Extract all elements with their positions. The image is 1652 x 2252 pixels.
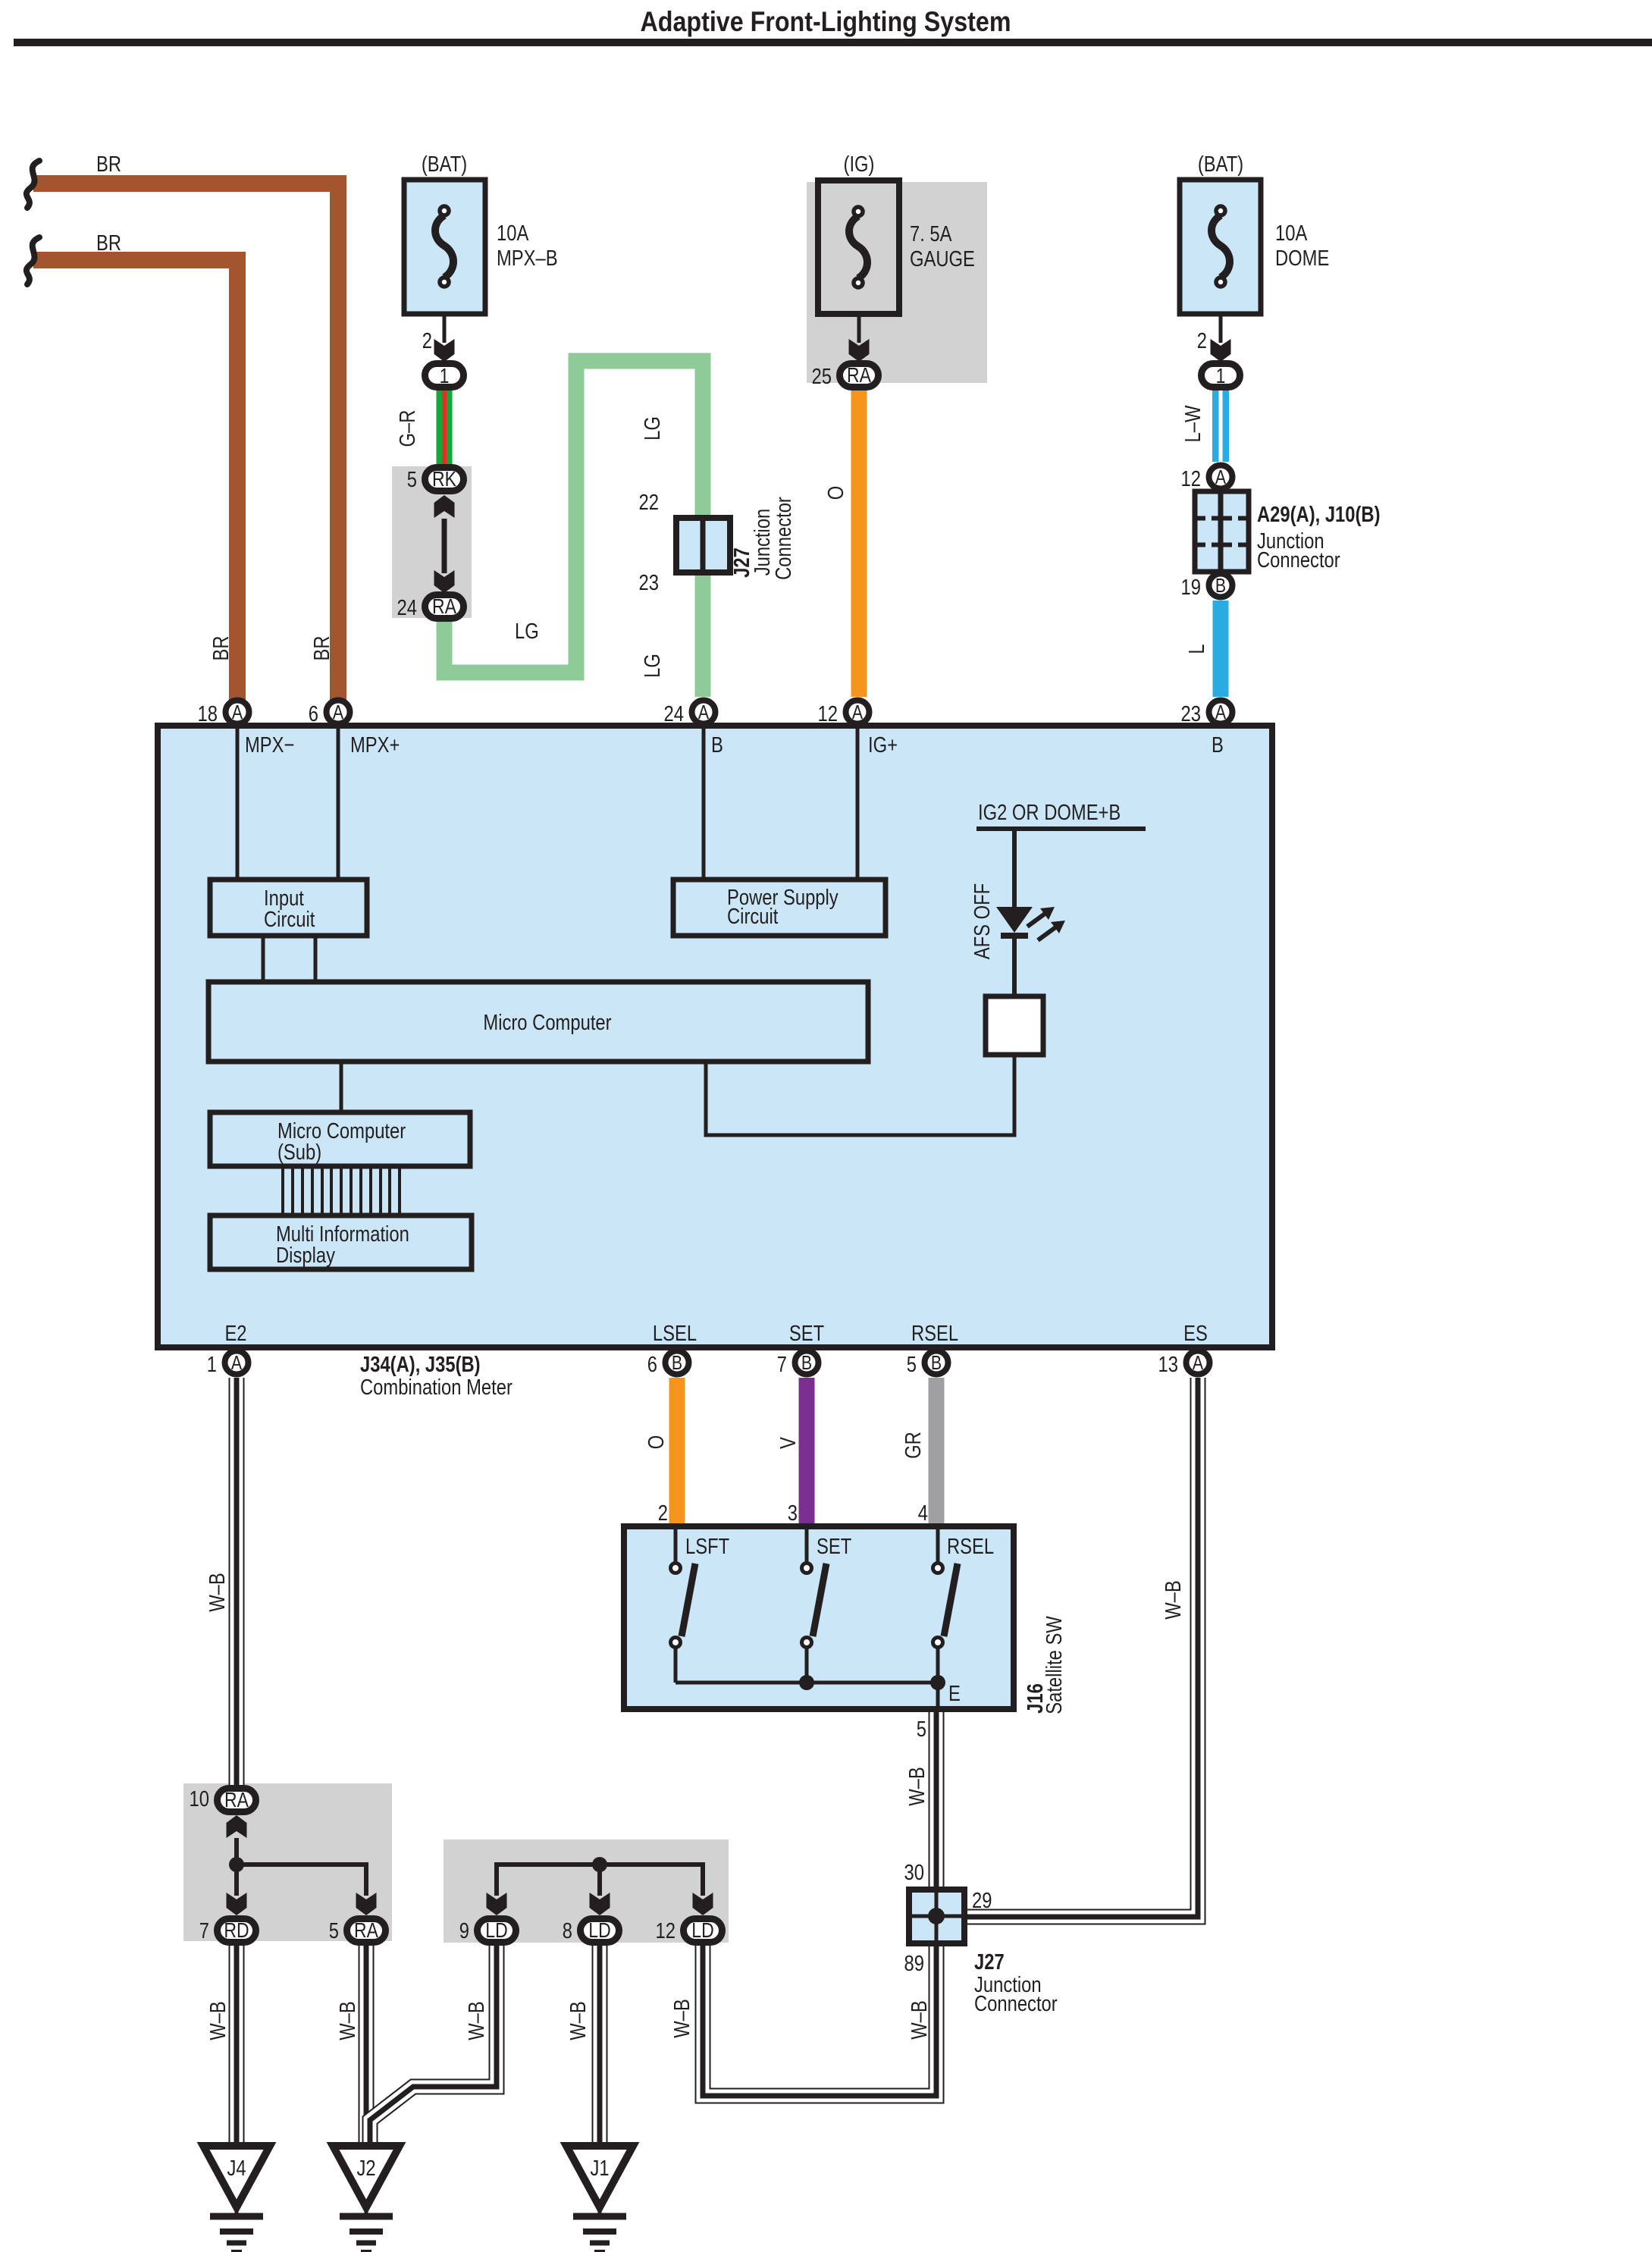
label J34(A), J35(B) Combination Meter [360,1353,513,1400]
svg-text:RSEL: RSEL [947,1535,994,1559]
wire micro computer to AFS indicator driver [706,1055,1014,1135]
wire W-B from 9LD joining ground J2 [370,1941,497,2146]
pin circle 12A [1209,466,1233,489]
svg-text:BR: BR [96,231,121,256]
wire between RK and RA [442,519,447,573]
arrow down into 5RA [356,1893,377,1915]
svg-text:GAUGE: GAUGE [910,247,975,271]
svg-text:W–B: W–B [670,1999,694,2038]
svg-text:5: 5 [407,468,417,492]
connector oval RA [425,594,464,619]
wire from IG2 node to AFS OFF LED [1012,829,1017,907]
svg-text:E2: E2 [224,1322,246,1346]
shading block: 10RA/7RD/5RA connector group [183,1783,392,1941]
meter bottom edge labels [224,1322,1207,1346]
meter top pin 6A [309,701,350,727]
arrow into 25RA [849,339,870,362]
LD distribution bus [497,1865,703,1896]
shading block: RK/RA connector pair [392,466,472,618]
svg-text:SET: SET [789,1322,825,1346]
meter internal wire MPX+ from pin 6 to input circuit [337,727,340,880]
connector oval 7RD [199,1918,256,1943]
svg-text:MPX–B: MPX–B [497,246,558,271]
svg-text:12: 12 [818,702,839,726]
svg-text:RA: RA [354,1918,378,1942]
svg-text:10A: 10A [497,221,529,246]
ground J4 [203,2146,270,2252]
label A29(A), J10(B) Junction Connector [1257,503,1381,572]
svg-text:1: 1 [1216,364,1226,387]
connector oval RA (gauge) [840,363,879,387]
svg-text:BR: BR [96,152,121,177]
svg-text:3: 3 [788,1501,798,1526]
meter top pin 12A [818,701,870,727]
svg-text:24: 24 [397,596,418,620]
connector pill 1 (MPX-B) [425,364,464,388]
svg-text:19: 19 [1181,576,1202,600]
connector oval 5RA [329,1918,386,1943]
svg-text:W–B: W–B [905,1767,929,1806]
wire LED to indicator square [1012,939,1017,996]
wire W-B from satellite switch E to J27 pin 30 [929,1709,945,1890]
wire 10RA to junction dot [234,1838,239,1865]
meter top pin 23A [1181,701,1233,727]
svg-text:23: 23 [639,571,660,595]
switch LSFT [671,1526,696,1683]
svg-text:A29(A), J10(B): A29(A), J10(B) [1257,503,1381,527]
svg-text:SET: SET [817,1535,852,1559]
label Junction Connector rotated [751,497,796,580]
lead from fuse DOME to connector 1 [1219,314,1223,343]
indicator square box [986,996,1043,1055]
svg-text:LG: LG [641,654,665,678]
svg-text:1: 1 [207,1353,217,1377]
wires input circuit to micro computer [263,936,315,982]
LED light arrows [1027,907,1065,940]
svg-text:A: A [232,701,243,723]
arrow down into 8LD [590,1893,610,1915]
wire O from meter LSEL to satellite switch pin 2 [669,1378,685,1526]
svg-text:(BAT): (BAT) [422,152,467,177]
svg-text:B: B [931,1351,942,1374]
meter top pin 24A [664,701,716,727]
svg-text:ES: ES [1183,1322,1208,1346]
svg-text:B: B [1212,733,1224,757]
svg-text:22: 22 [639,491,660,515]
meter bottom pin 13A [1158,1351,1210,1378]
wire W-B from 8LD to ground J1 [592,1941,608,2146]
svg-text:RK: RK [432,467,456,491]
micro computer box [208,982,868,1062]
svg-text:1: 1 [440,364,450,387]
svg-text:BR: BR [209,636,234,661]
meter bottom pin 6B [647,1351,689,1378]
svg-text:Connector: Connector [974,1992,1058,2016]
svg-text:J27: J27 [974,1950,1005,1974]
svg-text:6: 6 [647,1353,657,1377]
meter top edge labels [245,733,1224,757]
svg-text:RA: RA [224,1788,249,1811]
svg-text:(BAT): (BAT) [1198,152,1243,177]
svg-text:B: B [672,1351,682,1374]
svg-text:LSFT: LSFT [685,1535,729,1559]
svg-text:LSEL: LSEL [653,1322,697,1346]
svg-text:IG+: IG+ [868,733,898,757]
arrow down into RA [434,570,455,593]
svg-text:Circuit: Circuit [264,908,315,932]
svg-text:29: 29 [972,1889,992,1913]
wire LG loop from RA to meter pin 24 [444,361,703,697]
svg-text:J34(A), J35(B): J34(A), J35(B) [360,1353,481,1377]
continuation squiggle on BR wire 1 [27,161,39,208]
svg-text:AFS OFF: AFS OFF [970,883,995,959]
arrow up from RK [434,495,455,518]
wire GR from meter RSEL to satellite switch pin 4 [929,1378,945,1526]
meter internal wire B from pin 24 to power supply circuit [702,727,706,880]
node IG2 OR DOME+B [976,801,1146,829]
meter top pin 18A [198,701,249,727]
svg-text:Connector: Connector [1257,548,1340,572]
svg-text:W–B: W–B [566,2001,591,2040]
label J27 Junction Connector (ground) [974,1950,1058,2016]
svg-text:Display: Display [276,1244,335,1268]
multi information display box [210,1215,472,1269]
svg-text:LD: LD [588,1918,610,1942]
svg-text:10: 10 [190,1787,210,1811]
svg-text:9: 9 [459,1919,469,1943]
junction dot (RA/RD split) [229,1857,244,1872]
svg-text:L: L [1185,644,1209,654]
svg-text:RA: RA [847,363,871,387]
svg-text:RSEL: RSEL [911,1322,958,1346]
svg-text:LD: LD [691,1918,713,1942]
svg-text:12: 12 [656,1919,676,1943]
svg-text:IG2 OR DOME+B: IG2 OR DOME+B [978,801,1121,825]
wire W-B from 7RD to ground J4 [229,1945,245,2146]
svg-text:10A: 10A [1275,221,1308,246]
arrow down into 9LD [487,1893,507,1915]
svg-text:DOME: DOME [1275,246,1329,271]
input circuit box [210,880,367,936]
switch SET [802,1526,827,1683]
svg-text:RA: RA [432,594,456,618]
svg-text:A: A [231,1351,243,1374]
svg-text:13: 13 [1158,1353,1179,1377]
wire L-W from DOME connector 1 to junction 12A [1212,390,1229,462]
fuse GAUGE element [849,207,867,287]
arrow down into 7RD [227,1893,247,1915]
satellite switch box J16 [624,1526,1014,1709]
svg-text:LG: LG [515,619,539,644]
svg-text:LD: LD [485,1918,507,1942]
fuse DOME element [1212,206,1230,287]
pin circle 19B [1181,574,1233,601]
svg-text:O: O [644,1435,669,1450]
fuse GAUGE box [818,180,899,314]
connector pill 1 (DOME) [1202,364,1240,388]
svg-text:B: B [711,733,723,757]
svg-text:A: A [852,701,864,723]
svg-text:30: 30 [904,1861,925,1885]
fuse MPX-B element [435,206,453,287]
svg-text:8: 8 [563,1919,572,1943]
svg-text:7. 5A: 7. 5A [910,222,952,246]
svg-text:5: 5 [329,1919,339,1943]
arrow up into 10RA [227,1815,247,1838]
svg-text:J1: J1 [590,2156,609,2181]
svg-text:7: 7 [777,1353,787,1377]
svg-text:A: A [698,701,710,723]
switch labels [685,1535,994,1706]
fuse DOME box [1180,180,1261,314]
svg-text:(IG): (IG) [844,152,875,177]
svg-text:A: A [1215,701,1227,723]
junction connector A29(A) J10(B) [1195,491,1249,572]
connector oval 10RA [190,1787,256,1812]
svg-text:BR: BR [310,636,334,661]
svg-text:W–B: W–B [465,2001,489,2040]
svg-text:W–B: W–B [336,2001,360,2040]
svg-text:MPX−: MPX− [245,733,294,757]
meter bottom pin 7B [777,1351,819,1378]
svg-text:B: B [1215,574,1226,597]
meter internal wire MPX- from pin 18 to input circuit [236,727,240,880]
svg-text:5: 5 [917,1717,926,1742]
switch RSEL [933,1526,958,1683]
svg-text:V: V [776,1437,801,1449]
svg-text:RD: RD [224,1918,249,1942]
wire W-B from 5RA to ground J2 [359,1945,375,2146]
connector oval 12LD [656,1918,723,1943]
svg-text:2: 2 [1197,329,1207,353]
svg-text:J4: J4 [227,2156,246,2181]
lead from fuse GAUGE to 25RA [857,314,861,343]
svg-text:E: E [948,1682,961,1706]
connector oval RK [425,467,464,491]
wire micro computer to micro computer sub [340,1062,343,1112]
connector oval 9LD [459,1918,516,1943]
title rule [14,39,1652,46]
wire V from meter SET to satellite switch pin 3 [799,1378,815,1526]
svg-text:7: 7 [199,1919,209,1943]
svg-text:4: 4 [918,1501,928,1526]
svg-text:W–B: W–B [206,2001,230,2040]
svg-text:Satellite SW: Satellite SW [1042,1616,1067,1714]
svg-text:5: 5 [907,1353,917,1377]
svg-text:W–B: W–B [908,2000,932,2040]
junction connector J27 (LG) [676,518,730,572]
arrow into connector 1 [434,339,455,362]
wire L from junction 19B to meter pin 23 [1213,601,1229,697]
wire W-B from J27 pin 89 to 12LD [703,1941,936,2096]
junction dot E/bus [930,1675,945,1690]
lead from fuse MPX-B to connector 1 [443,314,447,343]
wire W-B from meter ES down and left to J27 [964,1378,1198,1917]
svg-text:B: B [801,1351,812,1374]
shading block: GAUGE fuse area [807,182,987,383]
label 10A DOME [1275,221,1329,271]
arrow into DOME connector 1 [1211,339,1231,362]
svg-text:18: 18 [198,702,218,726]
meter bottom pin 5B [907,1351,948,1378]
svg-text:Combination Meter: Combination Meter [360,1375,513,1400]
svg-text:J2: J2 [356,2156,375,2181]
svg-text:Connector: Connector [772,497,796,580]
wire BR (MPX- feed) [33,260,237,701]
wire BR (MPX+ feed) [33,183,338,701]
svg-text:6: 6 [309,702,318,726]
junction dot LD bus [592,1857,607,1872]
svg-text:24: 24 [664,702,685,726]
svg-text:LG: LG [641,416,665,441]
svg-text:MPX+: MPX+ [350,733,400,757]
svg-text:O: O [824,486,848,500]
svg-text:Circuit: Circuit [727,905,778,929]
svg-text:2: 2 [658,1501,668,1526]
svg-text:Micro Computer: Micro Computer [483,1011,611,1035]
meter bottom pin 1A [207,1351,249,1378]
svg-text:A: A [333,701,344,723]
wire G-R from connector 1 to RK [437,388,453,466]
ground J1 [566,2146,633,2252]
wire dot to 7RD [234,1865,239,1896]
meter internal wire IG+ from pin 12 to power supply circuit [856,727,860,880]
label 7.5A GAUGE [910,222,975,271]
bus hatching between sub and display [283,1166,400,1215]
fuse MPX-B box [404,180,485,314]
svg-text:W–B: W–B [205,1573,230,1612]
svg-text:12: 12 [1181,467,1202,491]
svg-text:A: A [1193,1351,1204,1374]
connector oval 8LD [563,1918,619,1943]
svg-text:L–W: L–W [1181,405,1205,442]
wire E to box bottom [936,1683,940,1711]
continuation squiggle on BR wire 2 [27,237,39,284]
ground J2 [333,2146,400,2252]
power supply circuit box [673,880,886,936]
svg-text:25: 25 [812,365,832,389]
svg-text:(Sub): (Sub) [277,1140,321,1165]
switch common bus [676,1681,938,1685]
svg-text:A: A [1215,466,1227,488]
combination meter box J34(A) J35(B) [158,726,1272,1347]
wire O from GAUGE 25RA to meter pin 12 [851,389,867,697]
svg-text:89: 89 [904,1952,925,1976]
label 10A MPX-B [497,221,558,271]
junction dot SET/bus [799,1675,814,1690]
svg-text:W–B: W–B [1161,1580,1186,1620]
junction connector J27 (ground) [909,1890,964,1943]
arrow down into 12LD [693,1893,713,1915]
shading block: 9LD/8LD/12LD connector group [444,1840,729,1943]
wire W-B from meter E2 to 10RA [229,1378,245,1786]
micro computer sub box [210,1112,470,1166]
wire dot to 5RA branch [237,1865,366,1896]
svg-text:Adaptive Front-Lighting System: Adaptive Front-Lighting System [641,6,1011,37]
svg-text:G–R: G–R [396,410,420,447]
svg-text:23: 23 [1181,702,1202,726]
svg-text:GR: GR [901,1432,926,1459]
svg-text:2: 2 [422,329,432,353]
LED AFS OFF [996,907,1033,939]
